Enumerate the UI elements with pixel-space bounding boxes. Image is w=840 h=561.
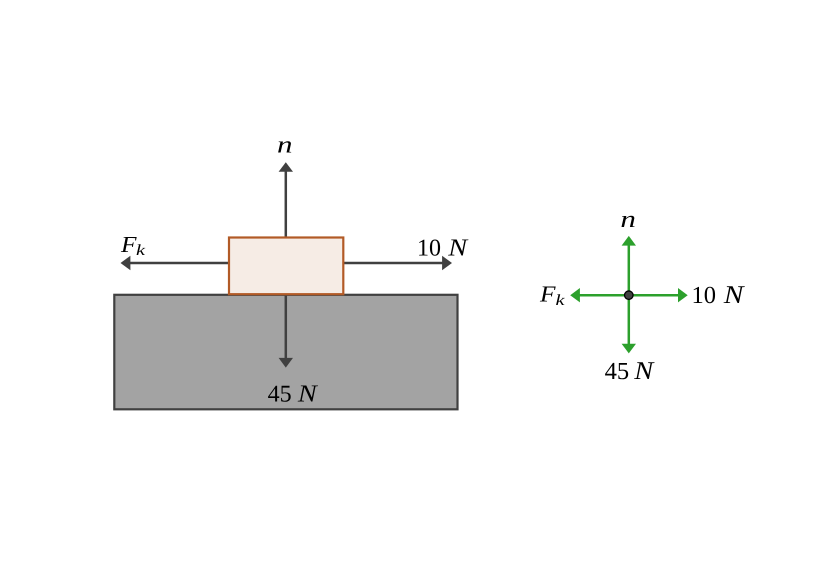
arrowhead 45N (down) — [279, 358, 293, 368]
wire: applied force line right — [343, 262, 443, 265]
arrowhead n (up) — [279, 162, 293, 172]
svg-text:45: 45 — [268, 382, 292, 408]
svg-text:N: N — [723, 280, 746, 309]
svg-text:n: n — [277, 133, 293, 159]
svg-text:N: N — [633, 356, 655, 385]
FBD: particle node (center dot) — [625, 291, 634, 300]
svg-text:F: F — [120, 232, 138, 257]
wire: friction force line left — [130, 262, 230, 265]
svg-text:F: F — [539, 282, 557, 307]
label Fk (left diagram) — [120, 232, 147, 259]
ground surface (gray slab) — [114, 295, 457, 410]
svg-text:45: 45 — [605, 358, 630, 385]
label 45 N (FBD) — [605, 356, 656, 385]
wire: normal force line up — [285, 172, 288, 239]
label n (FBD) — [620, 207, 636, 233]
label Fk (FBD) — [539, 282, 566, 309]
arrowhead 10N (right) — [442, 256, 452, 270]
svg-text:N: N — [297, 381, 319, 408]
svg-text:N: N — [447, 235, 469, 262]
FBD: friction arrow (green left) — [570, 288, 629, 302]
label 45 N (left diagram) — [268, 381, 319, 408]
FBD: weight arrow (green down) — [622, 295, 636, 353]
svg-text:10: 10 — [692, 282, 717, 309]
arrowhead Fk (left) — [121, 256, 131, 270]
FBD: applied force arrow (green right) — [629, 288, 688, 302]
svg-text:n: n — [620, 207, 636, 233]
label 10 N (left diagram) — [417, 235, 469, 262]
svg-text:10: 10 — [417, 236, 441, 262]
svg-text:k: k — [136, 242, 146, 259]
label n (left diagram) — [277, 133, 293, 159]
FBD: normal force arrow (green up) — [622, 236, 636, 295]
block on surface — [229, 238, 343, 295]
wire: weight force line down — [285, 294, 288, 360]
label 10 N (FBD) — [692, 280, 746, 309]
svg-text:k: k — [556, 292, 566, 309]
